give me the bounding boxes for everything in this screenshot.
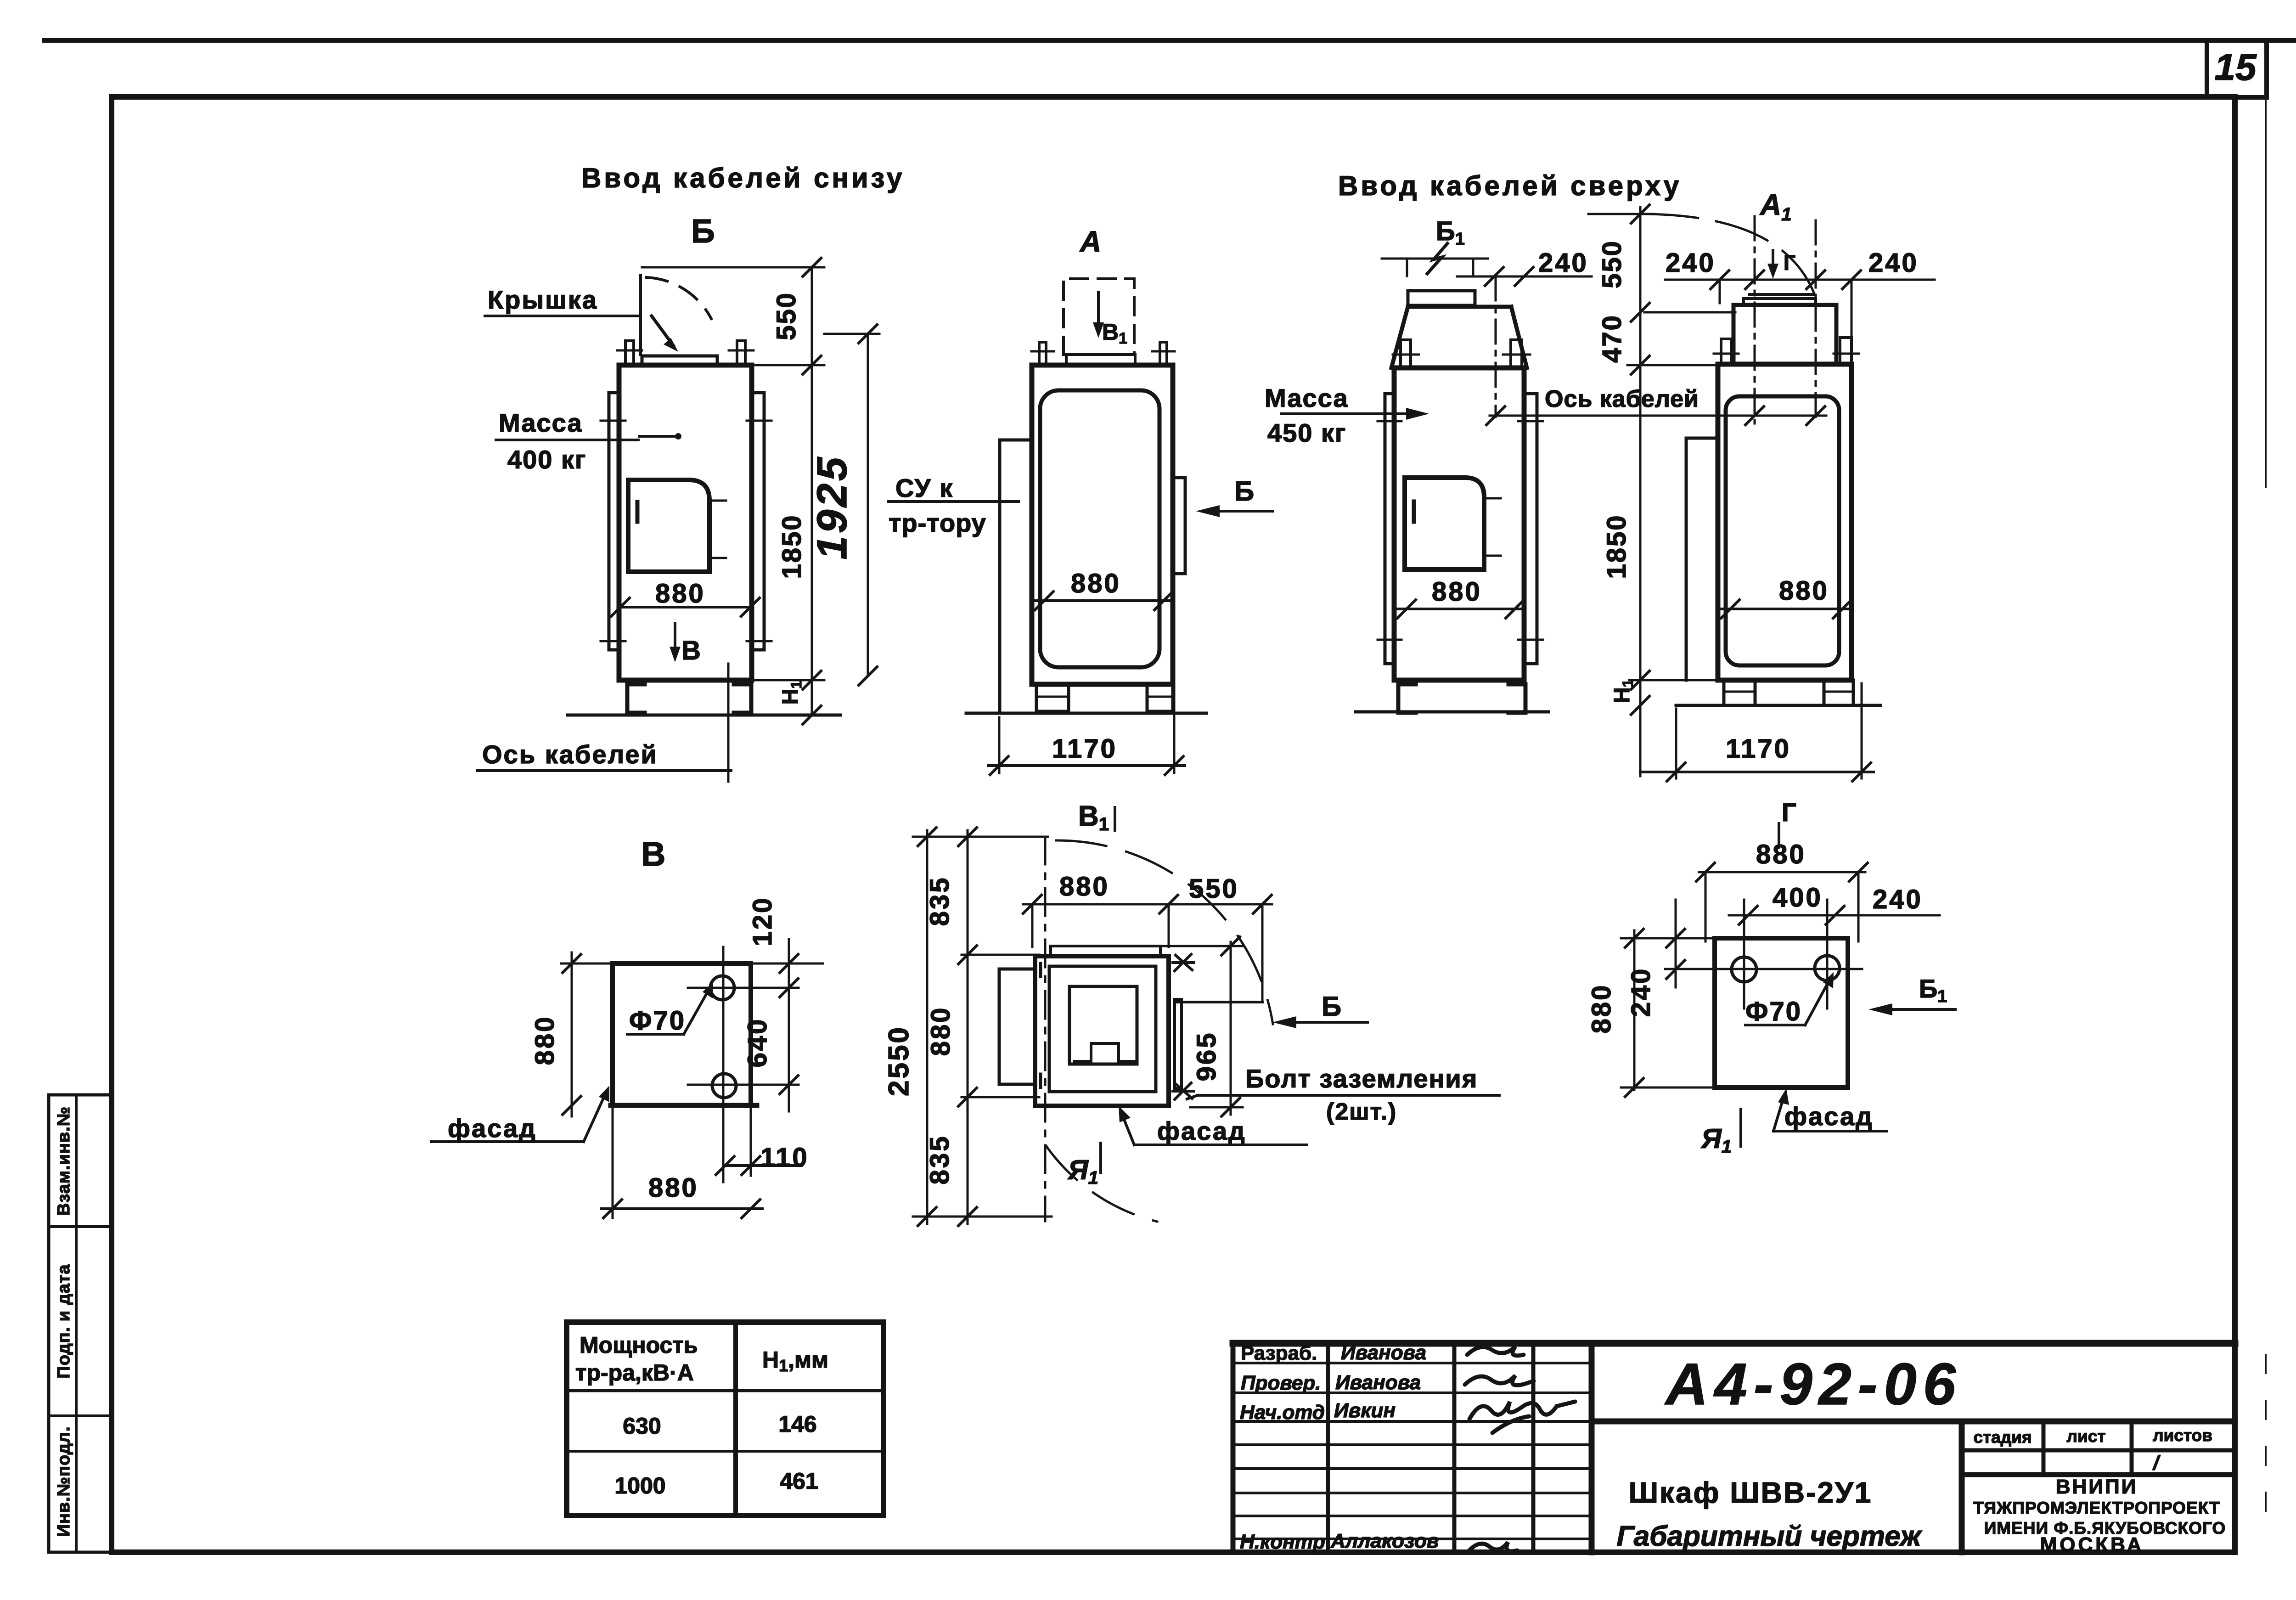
Ось кабелей axis line xyxy=(1490,415,1826,417)
svg-text:880: 880 xyxy=(1432,577,1482,607)
right 120/640 dim xyxy=(788,939,790,1111)
svg-text:880: 880 xyxy=(1756,839,1806,869)
svg-text:110: 110 xyxy=(760,1143,809,1172)
1170 dim xyxy=(1675,709,1677,778)
svg-text:240: 240 xyxy=(1868,248,1919,278)
svg-text:Г: Г xyxy=(1782,798,1796,827)
cable axis dash-dot xyxy=(1495,276,1497,417)
chute to transformer (left) xyxy=(998,440,1002,713)
svg-text:тр-тору: тр-тору xyxy=(889,508,986,537)
svg-text:146: 146 xyxy=(778,1411,816,1437)
svg-text:880: 880 xyxy=(530,1015,560,1065)
svg-text:В: В xyxy=(641,835,665,873)
svg-text:А4-92-06: А4-92-06 xyxy=(1664,1352,1962,1417)
svg-text:240: 240 xyxy=(1666,248,1716,278)
left 240 dim xyxy=(1675,900,1677,987)
hinge marks xyxy=(1039,963,1042,976)
svg-text:Нач.отд: Нач.отд xyxy=(1240,1401,1325,1424)
roof trapezoid xyxy=(1408,305,1511,309)
cabinet body xyxy=(619,365,752,680)
svg-text:фасад: фасад xyxy=(1784,1102,1874,1131)
top reference line xyxy=(1588,213,1653,215)
svg-text:Н1,мм: Н1,мм xyxy=(762,1347,828,1375)
svg-text:Ввод кабелей сверху: Ввод кабелей сверху xyxy=(1338,170,1682,201)
B section arrow xyxy=(674,624,676,656)
ground bolt marks X xyxy=(1173,954,1194,971)
inner square xyxy=(1049,966,1156,1092)
svg-text:1925: 1925 xyxy=(809,455,855,560)
svg-text:СУ к: СУ к xyxy=(895,473,953,502)
signature column texts xyxy=(1240,1341,1439,1553)
svg-text:461: 461 xyxy=(780,1468,818,1494)
holes xyxy=(710,976,734,1000)
bottom 880 dim xyxy=(602,1207,762,1210)
svg-text:880: 880 xyxy=(1059,872,1109,901)
svg-text:МОСКВА: МОСКВА xyxy=(2040,1533,2144,1556)
svg-text:400: 400 xyxy=(1773,883,1823,913)
svg-text:550: 550 xyxy=(771,292,801,340)
svg-text:лист: лист xyxy=(2067,1427,2106,1446)
Б view arrow xyxy=(1203,510,1273,513)
feet xyxy=(627,684,645,713)
Я1 tick xyxy=(1739,1109,1742,1146)
svg-text:фасад: фасад xyxy=(448,1114,537,1143)
Я1 tick xyxy=(1099,1143,1102,1173)
box xyxy=(1715,938,1848,1087)
svg-text:Ось кабелей: Ось кабелей xyxy=(1545,386,1699,412)
svg-text:550: 550 xyxy=(1597,240,1627,288)
svg-text:листов: листов xyxy=(2153,1426,2212,1445)
body xyxy=(1032,365,1173,684)
svg-text:Ивкин: Ивкин xyxy=(1334,1399,1396,1422)
top dim line 240/240 xyxy=(1665,279,1935,281)
svg-text:240: 240 xyxy=(1873,885,1923,914)
feet xyxy=(1036,684,1069,711)
left dim columns xyxy=(926,830,929,1224)
svg-text:В: В xyxy=(681,636,701,665)
side rail right xyxy=(752,393,764,650)
left 880 dim xyxy=(1633,930,1636,1090)
svg-text:2550: 2550 xyxy=(883,1025,915,1096)
dashed duct on top xyxy=(1064,279,1134,355)
400 dim xyxy=(1729,914,1940,917)
bolts xyxy=(1039,342,1046,365)
projection arc dashed xyxy=(1643,214,1818,303)
svg-text:Ф70: Ф70 xyxy=(629,1006,686,1036)
СУ к тр-тору underline xyxy=(889,500,1019,503)
svg-text:1850: 1850 xyxy=(777,514,807,579)
240 dim xyxy=(1457,276,1592,278)
top reference line xyxy=(1382,258,1488,260)
110 dim xyxy=(725,1164,801,1167)
svg-text:880: 880 xyxy=(1779,576,1829,606)
svg-text:Ось кабелей: Ось кабелей xyxy=(482,740,658,769)
side rail left xyxy=(609,393,619,650)
Ф70 leader xyxy=(627,1033,684,1036)
left stamp strip xyxy=(49,1095,111,1552)
svg-text:Разраб.: Разраб. xyxy=(1241,1342,1317,1364)
duct opening xyxy=(1069,986,1137,1064)
right handle xyxy=(1175,999,1182,1088)
body xyxy=(1394,368,1524,680)
svg-text:(2шт.): (2шт.) xyxy=(1326,1099,1397,1125)
chute left xyxy=(999,969,1035,1084)
svg-text:835: 835 xyxy=(925,876,955,926)
top cover plate xyxy=(642,356,717,365)
svg-text:880: 880 xyxy=(655,579,705,608)
svg-text:Н.контр: Н.контр xyxy=(1240,1531,1325,1553)
880 dim inside bottom xyxy=(620,606,750,608)
svg-text:120: 120 xyxy=(748,896,777,946)
svg-text:Б: Б xyxy=(691,213,715,250)
feet xyxy=(1724,680,1755,705)
page number box xyxy=(2207,40,2267,97)
Г direction arrow xyxy=(1772,250,1774,272)
svg-text:880: 880 xyxy=(648,1173,698,1203)
svg-text:Болт заземления: Болт заземления xyxy=(1245,1064,1478,1093)
880 dim xyxy=(1718,608,1851,610)
svg-text:15: 15 xyxy=(2214,46,2257,88)
body xyxy=(1718,364,1851,680)
Ось кабелей underline + axis xyxy=(478,769,731,772)
svg-text:1170: 1170 xyxy=(1052,734,1117,764)
centerlines xyxy=(1665,968,1862,970)
svg-text:1170: 1170 xyxy=(1726,734,1791,764)
Б arrow xyxy=(1280,1021,1367,1024)
top dims 880 / 550 xyxy=(1023,903,1272,906)
opened lid line xyxy=(639,275,642,355)
roof box xyxy=(1733,305,1836,364)
1170 dim xyxy=(998,717,1001,773)
svg-text:Шкаф ШВВ-2У1: Шкаф ШВВ-2У1 xyxy=(1629,1476,1873,1509)
footprint outer xyxy=(1035,956,1169,1106)
svg-text:Масса: Масса xyxy=(1265,383,1349,412)
Б1 arrow xyxy=(1876,1008,1955,1011)
svg-text:Подп. и дата: Подп. и дата xyxy=(54,1264,73,1378)
Болт заземления leader xyxy=(1198,1094,1499,1097)
inner rounded frame xyxy=(1040,390,1159,667)
880 dim line xyxy=(1032,599,1173,602)
centerlines xyxy=(722,947,725,1182)
svg-text:630: 630 xyxy=(623,1413,661,1439)
feet xyxy=(1398,684,1416,713)
svg-text:880: 880 xyxy=(1587,984,1616,1034)
bolt left xyxy=(625,341,634,365)
svg-text:880: 880 xyxy=(1071,569,1121,598)
svg-text:Аллакозов: Аллакозов xyxy=(1330,1530,1439,1552)
svg-text:965: 965 xyxy=(1192,1031,1221,1082)
фасад leader xyxy=(1773,1130,1886,1132)
top plate xyxy=(1066,355,1135,365)
left 880 dim xyxy=(571,952,573,1116)
stamp strip rotated labels xyxy=(54,1106,73,1537)
1925 dim xyxy=(867,334,869,676)
right slot cover xyxy=(1173,478,1185,574)
bolt right xyxy=(737,341,745,365)
Ф70 leader xyxy=(1745,1024,1805,1026)
stage/sheet header xyxy=(1973,1426,2212,1447)
inner rounded frame xyxy=(1726,396,1839,665)
svg-text:Ф70: Ф70 xyxy=(1745,997,1802,1026)
hat profile xyxy=(1074,1043,1134,1061)
svg-text:Г: Г xyxy=(1784,251,1795,275)
signatures squiggles xyxy=(1465,1346,1575,1552)
svg-text:Масса: Масса xyxy=(499,408,583,437)
svg-text:880: 880 xyxy=(926,1006,956,1056)
top 880 dim xyxy=(1699,871,1865,873)
duct plates xyxy=(1744,299,1816,305)
svg-text:240: 240 xyxy=(1626,967,1656,1017)
ground xyxy=(1356,710,1548,714)
svg-text:тр-ра,кВ·А: тр-ра,кВ·А xyxy=(575,1360,694,1386)
svg-text:Б: Б xyxy=(1322,991,1341,1022)
svg-text:470: 470 xyxy=(1597,314,1627,363)
bolts xyxy=(1721,339,1731,364)
center dash axis xyxy=(1044,837,1047,1221)
Масса underline and leader xyxy=(496,439,638,441)
master vertical dim line xyxy=(1639,207,1642,776)
top cap strip xyxy=(1051,946,1160,956)
svg-text:Мощность: Мощность xyxy=(580,1332,698,1358)
svg-text:фасад: фасад xyxy=(1157,1116,1246,1145)
svg-text:Иванова: Иванова xyxy=(1341,1341,1426,1364)
chute left xyxy=(1685,438,1688,680)
level extension lines xyxy=(1644,311,1735,314)
footprint rect xyxy=(613,963,751,1105)
side rails xyxy=(1385,394,1394,664)
965 dim xyxy=(1230,942,1232,1115)
paper edge artifact line xyxy=(2265,97,2267,487)
фасад leader xyxy=(432,1140,584,1143)
ground line xyxy=(568,714,840,717)
door xyxy=(1405,478,1484,569)
B1 arrow inside xyxy=(1097,292,1100,332)
svg-text:Иванова: Иванова xyxy=(1335,1371,1421,1394)
svg-text:Б: Б xyxy=(1234,476,1254,507)
right dimension stack xyxy=(642,266,824,269)
extensions down xyxy=(612,1105,614,1218)
svg-text:640: 640 xyxy=(743,1018,772,1068)
svg-text:Провер.: Провер. xyxy=(1241,1372,1321,1394)
Krышка leader xyxy=(485,315,639,317)
880 dim xyxy=(1394,608,1524,610)
svg-text:Крышка: Крышка xyxy=(488,285,598,314)
svg-text:Габаритный чертеж: Габаритный чертеж xyxy=(1616,1521,1922,1552)
svg-text:1850: 1850 xyxy=(1602,514,1632,579)
фасад leader xyxy=(1134,1144,1307,1146)
lid swing arc (dashed) xyxy=(647,277,711,319)
bolts xyxy=(1401,340,1411,368)
svg-text:550: 550 xyxy=(1189,874,1239,904)
svg-text:240: 240 xyxy=(1538,248,1588,278)
door xyxy=(628,480,709,572)
svg-text:450 кг: 450 кг xyxy=(1267,418,1346,447)
svg-text:А: А xyxy=(1079,225,1101,258)
svg-text:ВНИПИ: ВНИПИ xyxy=(2056,1476,2138,1498)
svg-text:835: 835 xyxy=(925,1135,955,1185)
dash-dot hole axes xyxy=(1754,216,1756,423)
holes xyxy=(1732,957,1756,982)
ground xyxy=(1676,704,1880,707)
svg-text:400 кг: 400 кг xyxy=(507,445,586,474)
svg-text:Ввод кабелей снизу: Ввод кабелей снизу xyxy=(581,163,905,193)
svg-text:Инв.№подл.: Инв.№подл. xyxy=(54,1426,73,1537)
duct plan corner xyxy=(1175,1001,1262,1003)
svg-text:стадия: стадия xyxy=(1973,1428,2032,1447)
section arcs dashed xyxy=(1056,840,1273,1024)
organization xyxy=(1973,1476,2226,1556)
ground xyxy=(966,712,1206,715)
zigzag leader under Б1 xyxy=(1427,243,1447,274)
Масса 450 underline + leader arrow xyxy=(1281,412,1422,415)
sheet top border line xyxy=(44,38,2296,43)
svg-text:1000: 1000 xyxy=(614,1473,665,1499)
svg-text:ТЯЖПРОМЭЛЕКТРОПРОЕКТ: ТЯЖПРОМЭЛЕКТРОПРОЕКТ xyxy=(1973,1499,2220,1517)
svg-text:Взам.инв.№: Взам.инв.№ xyxy=(54,1106,73,1216)
duct stub xyxy=(1408,291,1475,305)
